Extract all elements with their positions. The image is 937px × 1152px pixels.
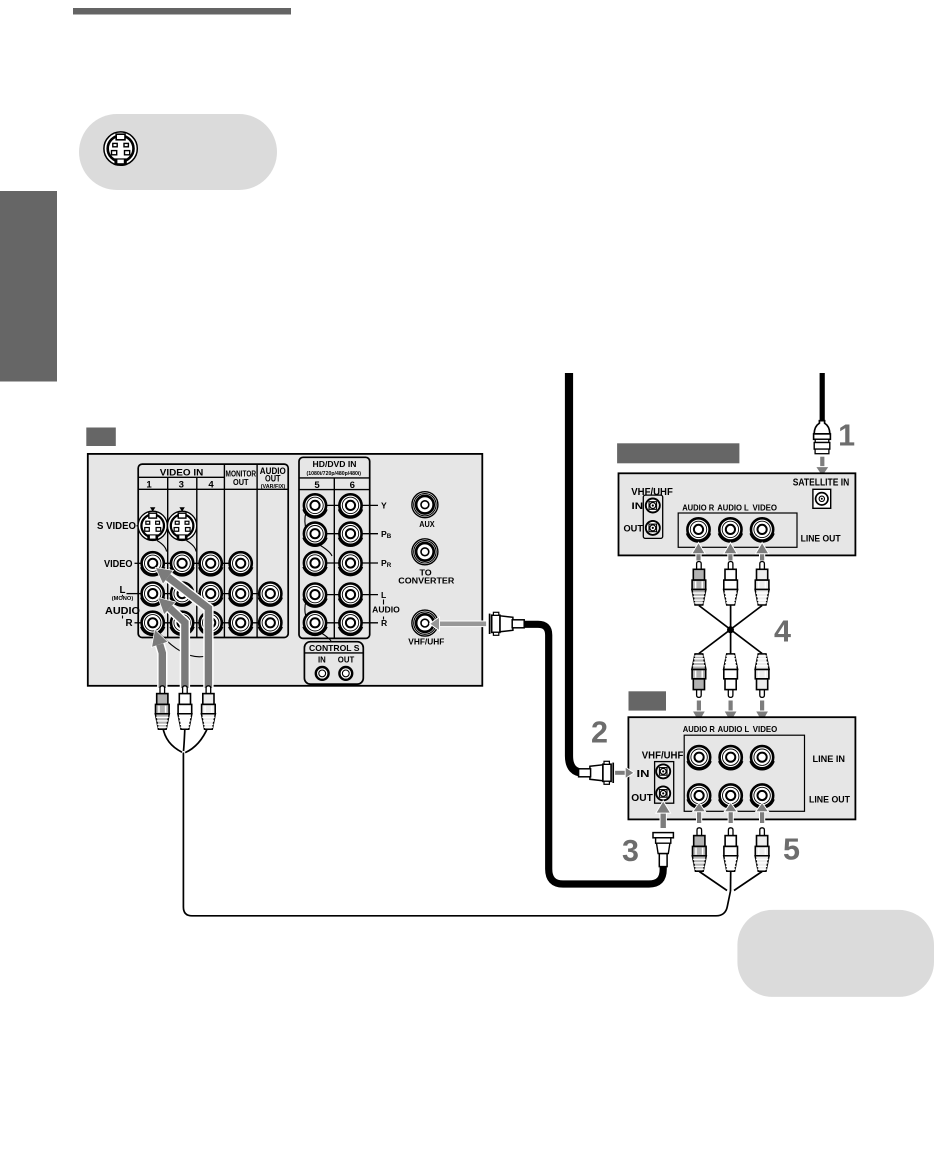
thin tie curves under S-video jacks	[157, 541, 196, 552]
HD/DVD row tie lines	[315, 505, 378, 622]
receiver LINE OUT label	[801, 533, 841, 544]
TV rear panel label chip	[86, 428, 116, 447]
gray arrow into VCR VHF/UHF OUT	[656, 801, 671, 829]
F plug at TV VHF/UHF	[490, 612, 525, 635]
RCA jack receiver AUDIO L	[719, 518, 742, 541]
VCR AUDIO R AUDIO L VIDEO labels	[683, 724, 778, 734]
svg-text:AUX: AUX	[419, 519, 435, 529]
svg-text:OUT: OUT	[265, 473, 281, 483]
left margin tab	[0, 191, 57, 382]
svg-text:OUT: OUT	[631, 793, 653, 804]
VCR OUT label	[631, 793, 653, 804]
S-video jack VIDEO IN 1	[138, 511, 167, 540]
RCA jack AUDIO R 3	[171, 612, 194, 635]
RCA plug audio L lower	[724, 654, 738, 698]
svg-text:5: 5	[783, 832, 800, 866]
svg-text:2: 2	[591, 716, 608, 750]
RCA jack AUDIO L 4	[199, 583, 222, 606]
receiver VHF/UHF label	[631, 487, 673, 498]
svg-text:4: 4	[774, 615, 791, 649]
receiver OUT label	[624, 524, 644, 534]
RCA plug video lower	[755, 654, 769, 698]
SATELLITE IN jack	[813, 489, 831, 508]
RCA jack HD 5 PR	[304, 552, 327, 575]
row labels L (MONO) AUDIO R	[105, 585, 141, 629]
svg-text:OUT: OUT	[338, 656, 355, 665]
svg-text:AUDIO: AUDIO	[372, 604, 400, 614]
satellite F plug (1)	[814, 421, 831, 454]
receiver VHF/UHF OUT jack	[646, 521, 660, 535]
RCA jack VCR line out audio R	[688, 784, 711, 807]
gray arrow into TV AUDIO R 1 jack	[152, 630, 167, 688]
CONTROL S OUT jack	[339, 667, 352, 680]
RCA jack VIDEO 1	[141, 552, 164, 575]
VCR VHF/UHF IN/OUT jack plate	[655, 762, 674, 804]
MONITOR OUT header	[226, 469, 257, 487]
VCR VHF/UHF IN jack	[656, 764, 670, 778]
svg-text:IN: IN	[318, 656, 326, 665]
VHF/UHF TV jack	[412, 610, 438, 636]
gray arrow into TV VHF/UHF	[430, 617, 487, 631]
svg-text:(1080i/720p/480p/480i): (1080i/720p/480p/480i)	[307, 471, 362, 477]
VCR VHF/UHF label	[642, 750, 684, 761]
svg-text:CONTROL S: CONTROL S	[309, 644, 360, 653]
RCA jack AUDIO R 4	[199, 612, 222, 635]
RCA jack VIDEO 3	[171, 552, 194, 575]
RCA jack AUDIO R OUT VAR/FIX	[259, 612, 282, 635]
RCA jack HD 6 PB	[339, 523, 362, 546]
svg-text:VHF/UHF: VHF/UHF	[642, 750, 684, 761]
RCA plug line out audio L	[724, 828, 738, 872]
RCA jack HD 5 R	[304, 612, 327, 635]
svg-text:1: 1	[146, 480, 152, 491]
svg-text:VIDEO: VIDEO	[753, 724, 778, 734]
svg-text:VHF/UHF: VHF/UHF	[631, 487, 673, 498]
RCA jack VCR line in video	[751, 746, 774, 769]
receiver AUDIO R AUDIO L VIDEO labels	[682, 503, 777, 513]
crossed AV cables	[699, 606, 762, 654]
thin cable curve near R jack	[160, 634, 206, 657]
RCA jack AUDIO R 1	[141, 612, 164, 635]
VCR LINE IN/OUT box	[684, 735, 804, 811]
S-video jack VIDEO IN 3	[167, 511, 196, 540]
RCA jack HD 6 R	[339, 612, 362, 635]
F plug into VCR IN (2)	[579, 761, 614, 784]
svg-text:6: 6	[350, 480, 355, 491]
svg-text:(MONO): (MONO)	[112, 596, 134, 602]
svg-text:OUT: OUT	[233, 477, 249, 487]
svg-text:3: 3	[179, 480, 184, 491]
svg-text:R: R	[381, 618, 388, 628]
R row tie line	[141, 622, 281, 624]
RCA plug TV audio R	[155, 686, 169, 730]
step number 3	[622, 834, 639, 868]
VCR VHF/UHF OUT jack	[656, 786, 670, 800]
gray arrows into VCR line in jacks	[692, 700, 769, 723]
receiver VHF/UHF IN jack	[646, 499, 660, 513]
VCR LINE IN label	[813, 754, 846, 765]
VIDEO IN header text	[146, 467, 214, 490]
gray arrow into SATELLITE IN	[816, 456, 830, 476]
RCA jack receiver AUDIO R	[687, 518, 710, 541]
RCA jack VIDEO MONITOR OUT	[229, 552, 252, 575]
svg-text:4: 4	[208, 480, 214, 491]
TO CONVERTER label	[398, 567, 455, 585]
satellite receiver label bar	[617, 443, 739, 463]
header rule bar	[73, 8, 291, 15]
step number 4	[774, 615, 791, 649]
VCR rear panel	[628, 717, 855, 819]
bottom-right note pill	[737, 910, 934, 997]
TV rear panel	[88, 454, 483, 686]
thin AV cable from VCR line out to TV	[163, 727, 762, 916]
VCR IN label	[637, 769, 650, 780]
antenna coax cable (to VCR IN)	[569, 373, 584, 773]
gray arrows into VCR line out jacks	[693, 802, 769, 823]
row label VIDEO	[104, 559, 141, 570]
row label S VIDEO	[97, 521, 140, 532]
gray arrow into VCR VHF/UHF IN	[615, 767, 635, 779]
svg-text:SATELLITE IN: SATELLITE IN	[793, 477, 850, 488]
svg-text:AUDIO L: AUDIO L	[717, 503, 749, 513]
TO CONVERTER jack	[412, 539, 438, 565]
svg-text:S VIDEO: S VIDEO	[97, 521, 136, 532]
RCA jack VIDEO 4	[199, 552, 222, 575]
step number 2	[591, 716, 608, 750]
svg-text:1: 1	[838, 418, 855, 452]
RCA jack AUDIO L 3	[171, 583, 194, 606]
RCA plug TV video	[201, 686, 215, 730]
svg-text:3: 3	[622, 834, 639, 868]
gray arrow into TV VIDEO 1 jack	[156, 568, 208, 688]
RCA jack HD 5 L	[304, 584, 327, 607]
VCR label bar	[629, 691, 667, 710]
RCA plug line out video	[755, 828, 769, 872]
HD/DVD IN box frame	[299, 457, 370, 638]
VCR LINE OUT label	[809, 794, 850, 805]
step number 5	[783, 832, 800, 866]
VIDEO IN table frame	[138, 464, 288, 637]
satellite antenna cable	[820, 373, 825, 423]
RCA jack HD 6 PR	[339, 552, 362, 575]
svg-text:IN: IN	[637, 769, 650, 780]
RCA jack HD 5 PB	[304, 523, 327, 546]
RCA jack VCR line out audio L	[719, 784, 742, 807]
HD/DVD row labels	[372, 501, 400, 628]
CONTROL S IN jack	[316, 667, 329, 680]
receiver VHF/UHF IN/OUT jack plate	[643, 495, 662, 538]
svg-text:AUDIO L: AUDIO L	[718, 724, 750, 734]
RCA jack AUDIO L MONITOR OUT	[229, 583, 252, 606]
svg-text:R: R	[125, 618, 132, 629]
svg-text:LINE OUT: LINE OUT	[801, 533, 841, 544]
gray arrows into receiver line out jacks	[692, 543, 769, 562]
RCA plug line out audio R	[692, 828, 706, 872]
RCA plug audio L upper	[724, 562, 738, 606]
S-video note pill	[79, 114, 277, 190]
gray arrow into TV AUDIO L 1 jack	[159, 598, 185, 688]
svg-text:HD/DVD IN: HD/DVD IN	[313, 459, 357, 469]
svg-text:CONVERTER: CONVERTER	[398, 576, 455, 586]
svg-text:(VAR/FIX): (VAR/FIX)	[261, 484, 286, 490]
RCA jack VCR line in audio L	[719, 746, 742, 769]
S-video icon in pill	[104, 132, 137, 165]
F plug from VCR OUT (3)	[653, 833, 673, 867]
RCA jack AUDIO L OUT VAR/FIX	[259, 583, 282, 606]
svg-text:AUDIO R: AUDIO R	[682, 503, 714, 513]
svg-text:Y: Y	[381, 501, 387, 511]
svg-text:LINE IN: LINE IN	[813, 754, 846, 765]
RCA jack HD 6 Y	[339, 494, 362, 517]
RCA plug video upper	[755, 562, 769, 606]
svg-text:L: L	[120, 585, 126, 596]
HD/DVD IN header text	[307, 459, 362, 491]
svg-text:AUDIO: AUDIO	[105, 606, 140, 617]
RCA plug TV audio L	[178, 686, 192, 730]
RCA plug audio R lower	[692, 654, 706, 698]
receiver IN label	[632, 501, 644, 511]
AUX label	[419, 519, 435, 529]
svg-text:IN: IN	[632, 501, 644, 511]
svg-text:VIDEO: VIDEO	[104, 559, 133, 570]
VIDEO row tie line	[141, 562, 252, 564]
RCA jack HD 5 Y	[304, 494, 327, 517]
svg-text:VIDEO IN: VIDEO IN	[160, 467, 204, 478]
svg-text:OUT: OUT	[624, 524, 644, 534]
RCA plug audio R upper	[692, 562, 706, 606]
S VIDEO key triangles	[150, 507, 185, 511]
satellite receiver panel	[619, 473, 856, 555]
CONTROL S box	[304, 642, 363, 684]
svg-text:VIDEO: VIDEO	[753, 503, 778, 513]
RCA jack AUDIO L 1	[141, 583, 164, 606]
step number 1	[838, 418, 855, 452]
AUX jack	[412, 492, 438, 518]
RCA jack AUDIO R MONITOR OUT	[229, 612, 252, 635]
svg-text:AUDIO R: AUDIO R	[683, 724, 715, 734]
AUDIO OUT (VAR/FIX) header	[260, 466, 286, 490]
SATELLITE IN label	[793, 477, 850, 488]
coax cable TV VHF/UHF to VCR OUT	[519, 624, 663, 884]
RCA jack HD 6 L	[339, 584, 362, 607]
svg-text:VHF/UHF: VHF/UHF	[408, 636, 444, 646]
svg-text:5: 5	[314, 480, 320, 491]
svg-text:L: L	[381, 590, 386, 600]
receiver LINE OUT box	[678, 513, 797, 547]
svg-text:LINE OUT: LINE OUT	[809, 794, 850, 805]
L row tie line	[141, 593, 281, 595]
RCA jack VCR line in audio R	[688, 746, 711, 769]
HD/DVD tie curves	[305, 512, 332, 641]
RCA jack receiver VIDEO	[751, 518, 774, 541]
RCA jack VCR line out video	[751, 784, 774, 807]
VHF/UHF TV label	[408, 636, 444, 646]
